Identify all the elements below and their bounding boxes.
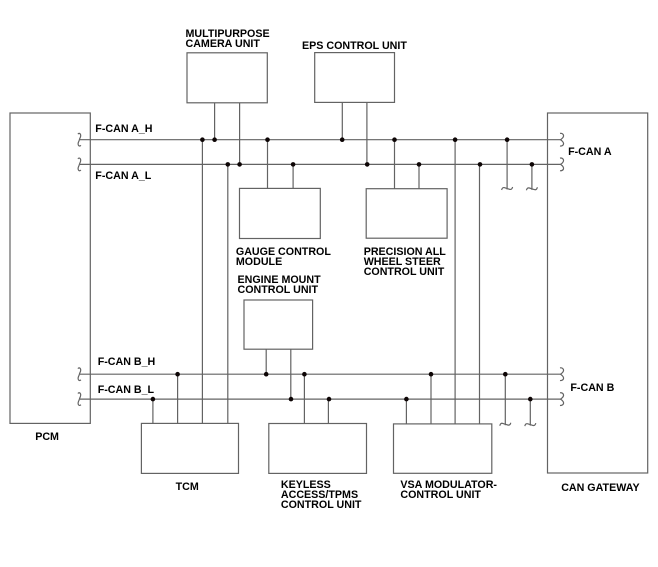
- junction B_L / keyless unit: [327, 397, 332, 402]
- label PRECISION ALL WHEEL STEER CONTROL UNIT: [364, 247, 446, 277]
- wire B_L to VSA-left: [405, 399, 407, 424]
- junction B_H / TCM: [175, 372, 180, 377]
- junction A_H / EPS unit: [340, 137, 345, 142]
- label F-CAN A_L: [95, 171, 151, 181]
- junction A_L / EPS unit: [365, 162, 370, 167]
- wire A_L down to TCM: [227, 164, 229, 423]
- junction A_L / PAWS unit: [417, 162, 422, 167]
- wire B_L to TCM: [152, 399, 154, 423]
- junction B_H / keyless unit: [302, 372, 307, 377]
- junction A_L / VSA riser: [478, 162, 483, 167]
- label ENGINE MOUNT CONTROL UNIT: [238, 275, 321, 295]
- wire B_H to VSA: [430, 374, 432, 424]
- wire A_H down to VSA: [454, 140, 456, 424]
- wire camera-left to A_H: [214, 103, 216, 140]
- box TCM: [141, 423, 238, 473]
- bus F-CAN A_L: [80, 163, 561, 165]
- junction B_H / stub: [503, 372, 508, 377]
- junction B_L / TCM: [151, 397, 156, 402]
- box ENGINE MOUNT CONTROL UNIT: [244, 300, 313, 349]
- junction B_L / engine mount: [289, 397, 294, 402]
- junction A_L / camera unit: [237, 162, 242, 167]
- box KEYLESS ACCESS/TPMS CONTROL UNIT: [269, 424, 367, 474]
- junction A_L / TCM riser: [226, 162, 231, 167]
- junction B_H / engine mount: [264, 372, 269, 377]
- label F-CAN B: [570, 383, 614, 393]
- label F-CAN B_H: [98, 357, 156, 367]
- label CAN GATEWAY: [561, 483, 639, 493]
- bus F-CAN B_H: [80, 373, 561, 375]
- label F-CAN B_L: [98, 385, 154, 395]
- label EPS CONTROL UNIT: [302, 41, 407, 51]
- wire EPS-right to A_L: [366, 102, 368, 164]
- box MULTIPURPOSE CAMERA UNIT: [187, 53, 267, 103]
- wire A_L down to VSA: [479, 164, 481, 424]
- curl A_L right: [560, 158, 564, 171]
- label KEYLESS ACCESS/TPMS CONTROL UNIT: [281, 480, 362, 510]
- stub from B_H: [504, 374, 506, 425]
- bus F-CAN A_H: [80, 139, 561, 141]
- stub from A_H: [506, 140, 508, 190]
- label MULTIPURPOSE CAMERA UNIT: [186, 29, 270, 49]
- wire engine-left to B_H: [265, 349, 267, 374]
- box EPS CONTROL UNIT: [315, 53, 395, 103]
- box PRECISION ALL WHEEL STEER CONTROL UNIT: [366, 189, 447, 239]
- box GAUGE CONTROL MODULE: [240, 188, 321, 238]
- tilde B_H stub: [500, 423, 511, 426]
- wire engine-right to B_L: [290, 349, 292, 399]
- curl B_L left: [78, 393, 81, 406]
- curl B_H left: [78, 368, 81, 381]
- wire EPS-left to A_H: [341, 102, 343, 139]
- label VSA MODULATOR-CONTROL UNIT: [400, 480, 497, 500]
- label GAUGE CONTROL MODULE: [236, 247, 331, 267]
- box PCM: [10, 113, 90, 423]
- label TCM: [176, 482, 199, 492]
- wire B_L to keyless-right: [327, 399, 329, 423]
- junction A_H / TCM riser: [200, 137, 205, 142]
- junction A_L / gauge module: [291, 162, 296, 167]
- junction B_H / VSA unit: [429, 372, 434, 377]
- tilde B_L stub: [525, 423, 536, 426]
- curl A_H right: [560, 133, 564, 146]
- junction A_H / VSA riser: [453, 137, 458, 142]
- junction A_H / camera unit: [212, 137, 217, 142]
- junction A_H / PAWS unit: [392, 137, 397, 142]
- tilde A_L stub: [526, 187, 537, 190]
- label F-CAN A_H: [95, 124, 152, 134]
- bus F-CAN B_L: [80, 398, 561, 400]
- wire A_L to gauge-right: [292, 164, 294, 188]
- wire B_H to keyless-left: [303, 374, 305, 423]
- box CAN GATEWAY: [548, 113, 648, 473]
- wire B_H to TCM: [177, 374, 179, 423]
- curl A_H left: [78, 133, 81, 146]
- junction B_L / VSA unit: [404, 397, 409, 402]
- curl A_L left: [78, 158, 81, 171]
- junction A_H / stub: [505, 137, 510, 142]
- wire camera-right to A_L: [239, 103, 241, 165]
- junction A_L / stub: [530, 162, 535, 167]
- tilde A_H stub: [502, 187, 513, 190]
- curl B_L right: [560, 393, 564, 406]
- junction B_L / stub: [528, 397, 533, 402]
- junction A_H / gauge module: [265, 137, 270, 142]
- stub from A_L: [531, 164, 533, 189]
- curl B_H right: [560, 368, 564, 381]
- wire A_L to PAWS-right: [418, 164, 420, 188]
- stub from B_L: [529, 399, 531, 426]
- wire A_H to PAWS-left: [394, 140, 396, 189]
- box VSA MODULATOR-CONTROL UNIT: [394, 424, 492, 473]
- wire A_H to gauge-left: [267, 140, 269, 189]
- wire A_H down to TCM: [201, 140, 203, 424]
- label F-CAN A: [568, 147, 612, 157]
- label PCM: [35, 432, 59, 442]
